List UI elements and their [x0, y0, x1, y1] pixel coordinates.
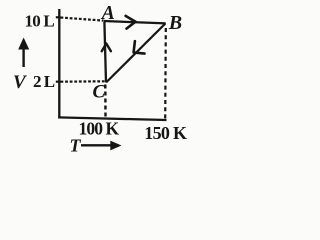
dashed line 2 L to C — [61, 80, 105, 83]
arrow head B to C — [134, 41, 145, 53]
tick 10 L — [56, 16, 61, 18]
svg-text:B: B — [168, 12, 182, 34]
arrow head C to A — [102, 44, 111, 52]
svg-text:T: T — [70, 136, 82, 156]
process line C to A — [104, 22, 106, 83]
svg-text:A: A — [100, 3, 115, 24]
arrow head A to B — [126, 16, 136, 29]
dashed line C down to T axis — [104, 85, 107, 118]
svg-text:2 L: 2 L — [33, 72, 55, 91]
svg-text:V: V — [13, 72, 27, 93]
dashed line 10 L to A — [61, 18, 104, 21]
process line A to B — [104, 21, 166, 23]
process line B to C — [106, 23, 165, 82]
tick 2 L — [56, 81, 61, 83]
svg-text:100 K: 100 K — [79, 118, 120, 138]
V axis line — [58, 9, 60, 118]
V axis direction arrow — [18, 38, 29, 68]
T axis line — [58, 117, 166, 120]
T axis direction arrow — [81, 141, 122, 151]
dashed line B down to T axis — [164, 28, 167, 120]
svg-text:10 L: 10 L — [25, 11, 55, 30]
svg-text:150 K: 150 K — [144, 123, 187, 143]
svg-text:C: C — [93, 81, 106, 102]
